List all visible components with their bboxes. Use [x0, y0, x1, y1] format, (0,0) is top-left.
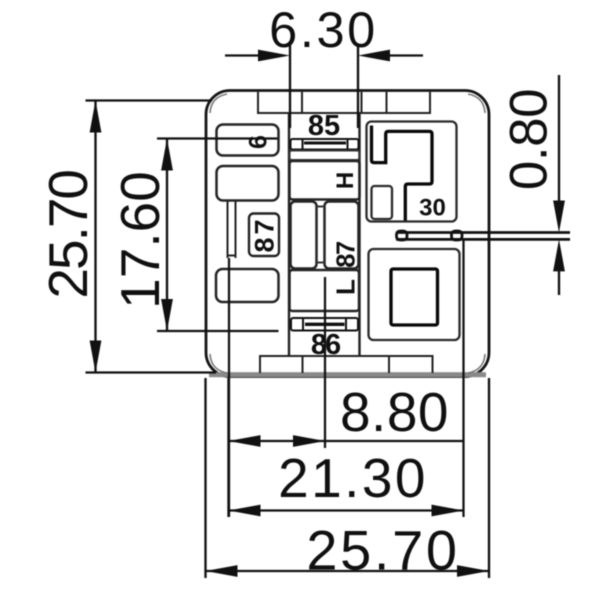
middle column walls [289, 113, 360, 356]
terminal 86 pocket (box A) [217, 125, 279, 156]
svg-text:6: 6 [245, 135, 273, 149]
terminal 30 stepped cavity [372, 126, 433, 221]
svg-text:0.80: 0.80 [500, 89, 559, 190]
corner inner shell arcs [210, 94, 485, 373]
extension line 17.60 top (through box A center) [157, 137, 278, 139]
svg-text:8.80: 8.80 [340, 381, 449, 443]
dimension 25.70 (left) [86, 101, 217, 373]
dimension 17.60 (left) [161, 139, 173, 332]
power blade square cavity [391, 269, 438, 325]
terminal 30 cavity outer box [367, 122, 457, 222]
svg-text:H: H [332, 172, 359, 189]
right pin extension line [462, 240, 464, 517]
body bottom edge thick gray band [209, 372, 486, 377]
small pocket in 30 cavity [372, 186, 393, 219]
svg-text:87: 87 [333, 241, 361, 268]
coil box L [290, 270, 360, 311]
mid sub-box right [325, 202, 359, 269]
svg-text:17.60: 17.60 [109, 171, 171, 309]
box C (left column bottom pocket) [216, 269, 279, 302]
box B (left column middle pocket) [217, 166, 279, 201]
dimension 0.80 (right) [553, 75, 565, 295]
mid channel nubs [317, 207, 325, 263]
svg-text:25.70: 25.70 [37, 171, 99, 299]
terminal 85 slot [291, 139, 359, 150]
center pin extension line [324, 277, 326, 448]
dimension 21.30 (bottom) [229, 505, 464, 517]
svg-text:25.70: 25.70 [306, 519, 459, 582]
power blade pocket outer box (bottom right) [369, 249, 460, 340]
dimension 8.80 (bottom) [229, 378, 464, 517]
svg-text:30: 30 [419, 195, 446, 222]
dimension 6.30 [225, 45, 423, 128]
svg-text:6.30: 6.30 [269, 1, 378, 58]
label box 87 (left) [249, 214, 279, 257]
svg-text:21.30: 21.30 [278, 447, 428, 509]
top strip [258, 92, 430, 113]
svg-text:L: L [331, 279, 361, 295]
left terminal channel [228, 201, 236, 259]
svg-text:87: 87 [250, 216, 280, 252]
left pin center line (below box C to bottom dims) [228, 258, 230, 517]
extension line 17.60 bottom [157, 330, 279, 332]
relay body outline [206, 91, 489, 377]
coil box H [290, 161, 360, 200]
bottom strip [260, 356, 433, 373]
narrow band under 85 slot [290, 151, 360, 161]
mid sub-box left [291, 202, 317, 269]
terminal 86 slot [291, 318, 358, 331]
terminal 30 blade edge-on (0.80 thick) [396, 231, 570, 240]
svg-text:85: 85 [308, 110, 340, 142]
dimension 25.70 (bottom) [206, 378, 490, 578]
